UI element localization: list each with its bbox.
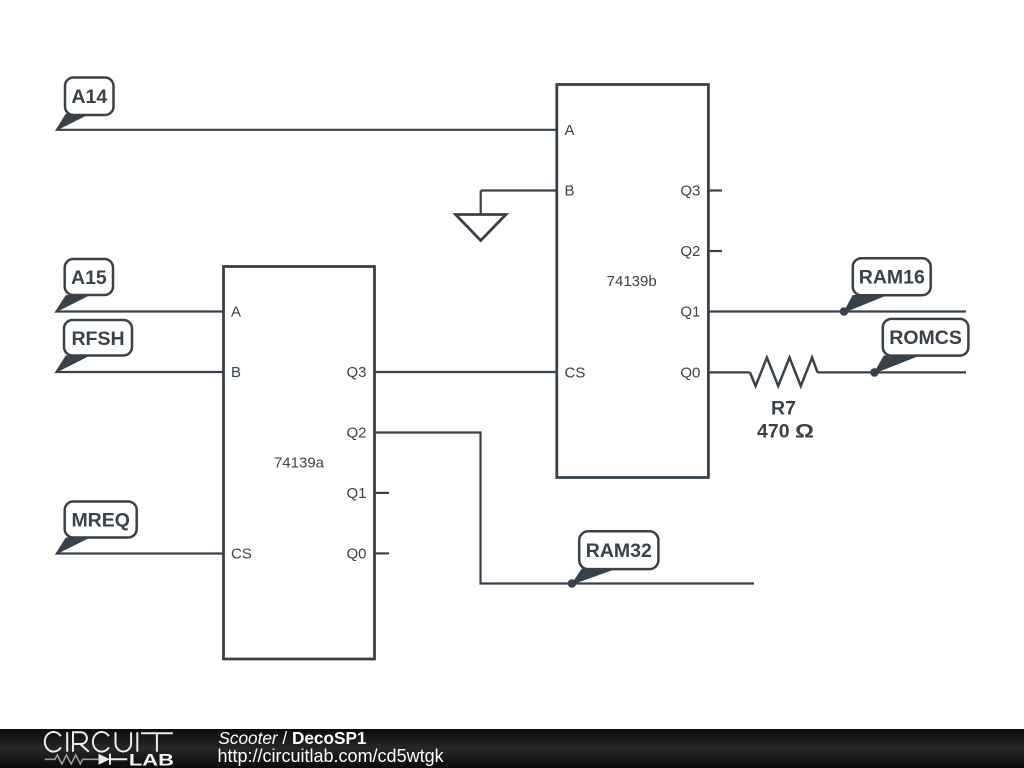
flag RAM16 [844,258,931,312]
wire b.Q2 stub [708,250,722,252]
wire MREQ net [56,552,224,554]
wire a.Q3 to b.CS [375,371,557,373]
svg-text:Q3: Q3 [680,183,700,200]
svg-text:A15: A15 [71,267,107,289]
svg-text:Q0: Q0 [680,364,700,381]
svg-text:74139b: 74139b [607,273,657,290]
wire b.Q0 to resistor [708,371,750,373]
svg-text:Q1: Q1 [680,304,700,321]
wire resistor to ROMCS net [818,371,967,373]
svg-text:B: B [565,183,575,200]
svg-text:CS: CS [565,364,586,381]
IC U2 74139b [557,85,709,478]
wire A15 net [56,310,224,312]
wire A14 net [56,129,557,131]
svg-text:A: A [231,304,241,321]
wire a.Q1 stub [375,492,390,494]
wire RFSH net [56,371,224,373]
svg-text:CS: CS [231,546,252,563]
svg-text:Q2: Q2 [346,424,366,441]
flag A15 [56,259,114,312]
node RAM16 junction [840,307,849,316]
svg-text:A14: A14 [71,86,107,108]
logo diode [99,754,111,765]
IC U1 74139a [224,267,375,660]
flag A14 [56,78,114,131]
svg-text:Q2: Q2 [680,243,700,260]
ground [456,191,557,241]
svg-text:470 Ω: 470 Ω [757,420,814,442]
svg-text:RAM32: RAM32 [586,540,652,562]
svg-text:Q3: Q3 [346,364,366,381]
svg-text:MREQ: MREQ [71,510,130,532]
svg-text:B: B [231,364,241,381]
svg-text:http://circuitlab.com/cd5wtgk: http://circuitlab.com/cd5wtgk [218,746,445,766]
svg-text:Scooter / DecoSP1: Scooter / DecoSP1 [218,728,367,748]
svg-text:A: A [565,122,575,139]
svg-text:ROMCS: ROMCS [889,327,962,349]
svg-text:R7: R7 [771,398,796,420]
logo CIRCUIT lettering [45,732,173,752]
wire b.Q3 stub [708,189,722,191]
flag RAM32 [572,531,659,584]
svg-text:Q0: Q0 [346,545,366,562]
flag MREQ [56,502,137,555]
svg-text:Q1: Q1 [346,485,366,502]
svg-text:LAB: LAB [129,750,174,768]
svg-text:74139a: 74139a [274,455,325,472]
logo wire with resistor [45,755,99,764]
wire a.Q0 stub [375,552,390,554]
wire b.Q1 to RAM16 net [708,310,966,312]
node ROMCS junction [870,368,879,377]
flag RFSH [56,320,133,373]
resistor R7 [750,358,818,443]
wire a.Q2 to RAM32 net [375,433,755,584]
svg-text:RAM16: RAM16 [859,267,925,289]
node RAM32 junction [568,579,577,588]
svg-text:RFSH: RFSH [71,328,124,350]
flag ROMCS [875,319,969,373]
